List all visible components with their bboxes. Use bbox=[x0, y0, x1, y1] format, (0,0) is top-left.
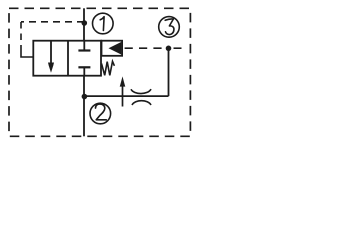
flow direction arrow (up) bbox=[120, 76, 126, 106]
node junction port 1 bbox=[82, 20, 88, 26]
pilot wire (dashed) from port 1 to left side of valve bbox=[21, 22, 84, 57]
node junction port 3 bbox=[166, 46, 172, 52]
valve envelope (dashed boundary) bbox=[9, 8, 190, 136]
valve position divider bbox=[67, 41, 69, 76]
valve V1 body outline bbox=[33, 41, 101, 76]
wire port 1 vertical bbox=[83, 8, 85, 40]
valve open-position flow arrow (down) bbox=[48, 41, 54, 73]
port label 1 bbox=[93, 13, 114, 34]
pilot actuator arrowhead bbox=[109, 42, 122, 55]
wire node3 down bbox=[168, 48, 170, 96]
wire horizontal port2 to port3 bbox=[85, 95, 169, 97]
valve closed-position blocked port (bottom T) bbox=[78, 67, 90, 75]
pilot actuator box bbox=[102, 41, 123, 56]
spring W bbox=[102, 61, 115, 75]
port label 3 bbox=[159, 17, 180, 38]
port label 2 bbox=[90, 103, 111, 124]
pilot wire (dashed) from actuator to node 3 bbox=[125, 47, 169, 49]
node junction port 2 bbox=[82, 94, 88, 100]
wire port 2 vertical bbox=[83, 76, 85, 137]
valve closed-position blocked port (top T) bbox=[78, 41, 90, 51]
orifice (restriction) arcs bbox=[131, 89, 151, 93]
pilot wire (dashed) node 3 to envelope edge bbox=[174, 47, 182, 49]
